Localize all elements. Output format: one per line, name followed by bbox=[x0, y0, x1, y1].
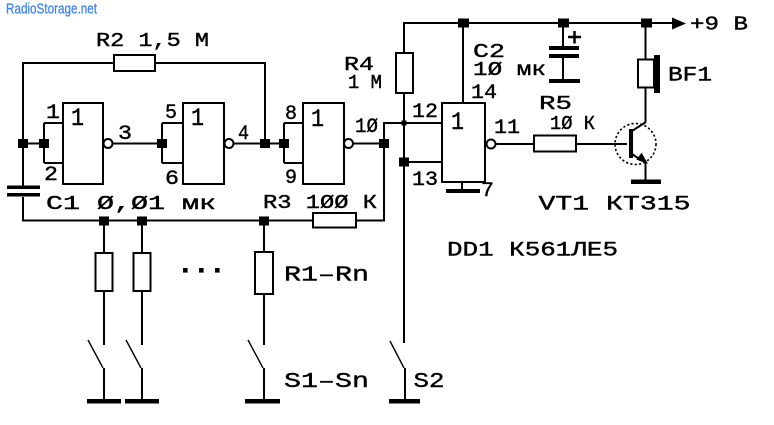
svg-text:R2 1,5 M: R2 1,5 M bbox=[96, 30, 209, 52]
svg-text:R5: R5 bbox=[539, 93, 572, 115]
svg-text:13: 13 bbox=[412, 169, 438, 192]
svg-text:1Ø К: 1Ø К bbox=[550, 113, 595, 135]
svg-text:1: 1 bbox=[46, 102, 60, 125]
svg-text:BF1: BF1 bbox=[668, 65, 712, 88]
svg-text:+9 В: +9 В bbox=[690, 14, 748, 36]
svg-text:S1–Sn: S1–Sn bbox=[284, 371, 369, 394]
svg-text:1: 1 bbox=[451, 108, 464, 137]
svg-text:2: 2 bbox=[44, 164, 58, 187]
svg-text:6: 6 bbox=[165, 168, 179, 191]
svg-text:S2: S2 bbox=[414, 371, 445, 394]
svg-text:1Ø мк: 1Ø мк bbox=[473, 59, 546, 81]
svg-text:12: 12 bbox=[412, 101, 438, 124]
svg-text:14: 14 bbox=[471, 82, 497, 105]
svg-text:R3 1ØØ К: R3 1ØØ К bbox=[263, 192, 377, 214]
svg-text:11: 11 bbox=[494, 117, 520, 140]
svg-text:VT1 КТ315: VT1 КТ315 bbox=[539, 194, 691, 217]
svg-text:9: 9 bbox=[285, 167, 297, 190]
svg-text:8: 8 bbox=[285, 103, 297, 126]
svg-text:1: 1 bbox=[71, 104, 84, 133]
svg-text:5: 5 bbox=[165, 102, 177, 125]
svg-text:7: 7 bbox=[481, 180, 494, 203]
svg-text:1 М: 1 М bbox=[348, 72, 382, 94]
svg-text:1: 1 bbox=[311, 105, 324, 134]
svg-text:RadioStorage.net: RadioStorage.net bbox=[6, 1, 98, 18]
svg-text:DD1 К561ЛЕ5: DD1 К561ЛЕ5 bbox=[447, 240, 618, 263]
svg-text:4: 4 bbox=[238, 123, 249, 146]
svg-text:R1–Rn: R1–Rn bbox=[284, 265, 369, 288]
svg-text:3: 3 bbox=[118, 123, 132, 146]
svg-text:1Ø: 1Ø bbox=[355, 116, 378, 139]
svg-text:C1 Ø,Ø1 мк: C1 Ø,Ø1 мк bbox=[46, 193, 216, 215]
svg-text:1: 1 bbox=[191, 104, 204, 133]
